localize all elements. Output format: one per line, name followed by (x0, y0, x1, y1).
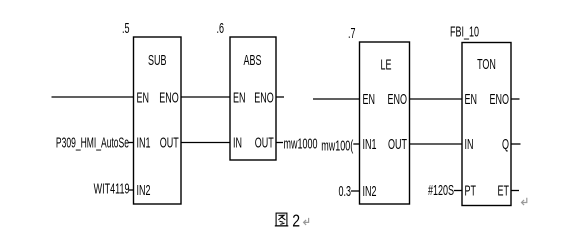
wire (181, 96, 230, 98)
pin OUT of ABS (255, 134, 274, 151)
pin IN2 of LE (363, 183, 377, 200)
svg-text:IN2: IN2 (137, 182, 151, 199)
svg-text:WIT4119: WIT4119 (94, 180, 130, 197)
function block U3 LE (360, 42, 410, 204)
svg-text:IN: IN (233, 134, 242, 151)
pin PT of TON (465, 182, 477, 199)
wire (313, 98, 360, 100)
svg-text:IN1: IN1 (137, 134, 151, 151)
value label mw1000 on OUT of ABS (284, 135, 318, 152)
wire (410, 143, 463, 145)
pin EN of TON (465, 91, 477, 108)
function block U1 SUB (134, 37, 182, 204)
paragraph return mark (304, 218, 309, 225)
svg-text:.6: .6 (216, 19, 224, 36)
svg-text:EN: EN (363, 91, 375, 108)
svg-text:ABS: ABS (244, 52, 262, 69)
caption text 2 (292, 212, 300, 231)
pin ENO of LE (388, 91, 408, 108)
pin IN1 of SUB (137, 134, 151, 151)
wire (511, 98, 520, 100)
wire (353, 143, 359, 145)
svg-text:LE: LE (380, 56, 391, 73)
wire (276, 142, 283, 144)
svg-text:2: 2 (292, 212, 300, 231)
svg-text:.5: .5 (122, 19, 130, 36)
svg-text:OUT: OUT (255, 134, 274, 151)
wire (129, 189, 134, 191)
wire (454, 190, 462, 192)
label FBI_10 (450, 23, 479, 40)
label .5 (122, 19, 130, 36)
pin EN of ABS (233, 89, 245, 106)
pin IN of ABS (233, 134, 242, 151)
svg-text:ET: ET (498, 182, 510, 199)
caption character 图 (275, 213, 289, 226)
svg-text:ENO: ENO (388, 91, 408, 108)
svg-text:OUT: OUT (388, 136, 407, 153)
wire (511, 190, 519, 192)
svg-text:TON: TON (477, 56, 496, 73)
svg-text:OUT: OUT (160, 134, 179, 151)
svg-text:mw100(: mw100( (321, 137, 354, 154)
svg-text:FBI_10: FBI_10 (450, 23, 479, 40)
pin ENO of TON (490, 91, 510, 108)
svg-text:EN: EN (233, 89, 245, 106)
svg-text:#120S: #120S (428, 182, 454, 199)
pin OUT of LE (388, 136, 407, 153)
svg-text:IN1: IN1 (363, 136, 377, 153)
function block U2 ABS (230, 37, 276, 160)
svg-text:IN2: IN2 (363, 183, 377, 200)
svg-text:EN: EN (465, 91, 477, 108)
pin ENO of SUB (159, 89, 179, 106)
svg-text:ENO: ENO (254, 89, 274, 106)
value label 0.3 on IN2 of LE (338, 183, 351, 200)
wire (276, 96, 284, 98)
svg-text:PT: PT (465, 182, 477, 199)
svg-text:P309_HMI_AutoSe: P309_HMI_AutoSe (56, 134, 129, 151)
svg-text:Q: Q (502, 136, 509, 153)
label .7 (348, 24, 356, 41)
pin EN of LE (363, 91, 375, 108)
paragraph return mark (522, 198, 527, 205)
svg-text:.7: .7 (348, 24, 356, 41)
svg-text:ENO: ENO (490, 91, 510, 108)
pin EN of SUB (137, 89, 149, 106)
svg-text:0.3: 0.3 (338, 183, 351, 200)
pin IN2 of SUB (137, 182, 151, 199)
svg-text:ENO: ENO (159, 89, 179, 106)
svg-text:SUB: SUB (148, 52, 166, 69)
value label #120S on PT of TON (428, 182, 454, 199)
value label P309_HMI_AutoSe on IN1 (56, 134, 129, 151)
svg-text:EN: EN (137, 89, 149, 106)
wire (410, 98, 463, 100)
pin ET of TON (498, 182, 510, 199)
pin Q of TON (502, 136, 509, 153)
wire (351, 190, 360, 192)
pin IN of TON (465, 136, 474, 153)
svg-text:IN: IN (465, 136, 474, 153)
value label mw100( on IN1 of LE (321, 137, 354, 154)
wire (511, 143, 521, 145)
label .6 (216, 19, 224, 36)
wire (129, 142, 134, 144)
function block U4 TON (462, 43, 511, 206)
pin IN1 of LE (363, 136, 377, 153)
pin ENO of ABS (254, 89, 274, 106)
svg-text:mw1000: mw1000 (284, 135, 318, 152)
pin OUT of SUB (160, 134, 179, 151)
wire (181, 142, 230, 144)
wire (52, 96, 134, 98)
value label WIT4119 on IN2 (94, 180, 130, 197)
